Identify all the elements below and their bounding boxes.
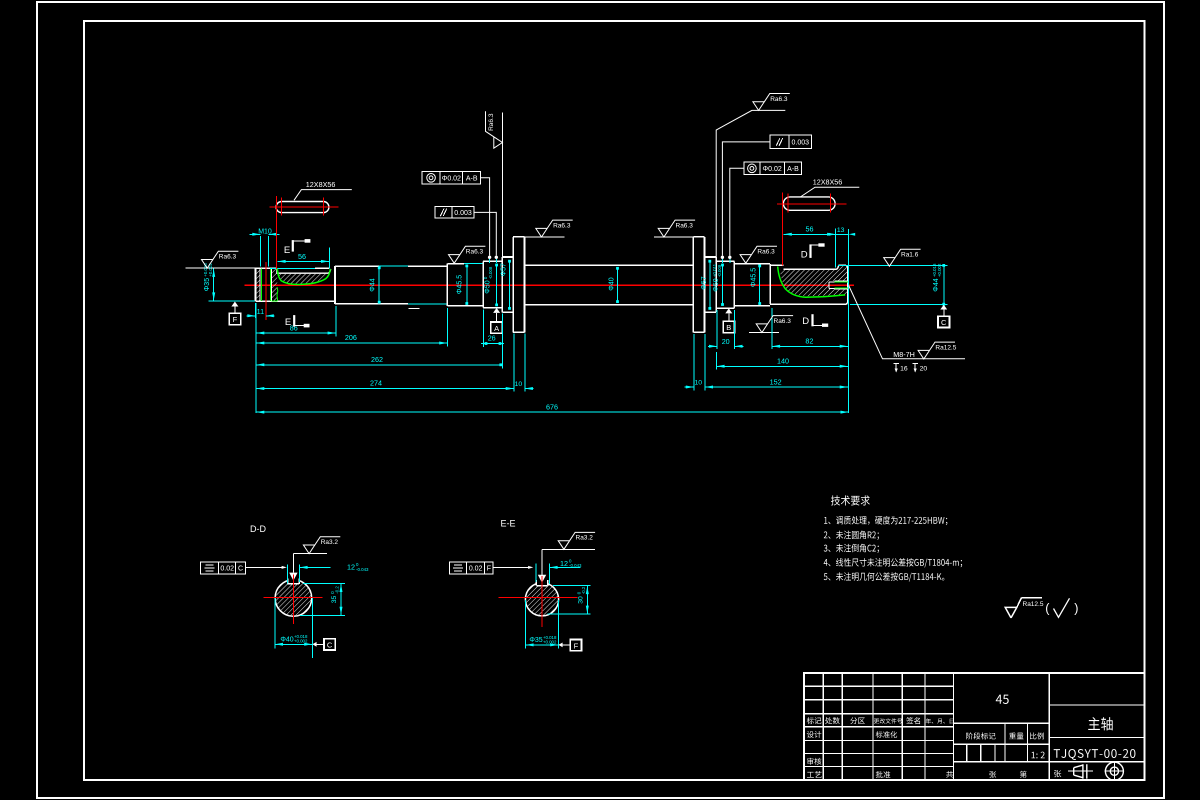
E-E leader arrow into keyway xyxy=(538,575,546,583)
title row craft xyxy=(807,771,822,778)
dim 152 and 10 flange2 xyxy=(693,334,695,391)
datum F main view xyxy=(231,302,238,307)
datum B main view xyxy=(725,308,732,313)
flange1 top edge + extension xyxy=(513,236,524,238)
M10 hole axis red xyxy=(265,262,267,320)
svg-text:Φ35: Φ35 xyxy=(204,278,211,291)
D-D keyway width dim 12 xyxy=(286,565,288,584)
svg-text:-0.008: -0.008 xyxy=(717,264,722,277)
title sheet count row xyxy=(946,771,953,778)
S10 right end top edge to keyway xyxy=(770,264,783,266)
D-D crosshair red xyxy=(263,597,322,599)
dim 56 right keyway xyxy=(834,229,836,268)
surface Ra6.3 on Phi45.5 xyxy=(449,246,486,263)
D-D circle with hatch xyxy=(275,580,312,617)
shaft left end face xyxy=(255,268,257,301)
svg-text:Φ45.5: Φ45.5 xyxy=(750,268,757,287)
svg-text:Φ40: Φ40 xyxy=(280,637,293,644)
svg-text:A-B: A-B xyxy=(787,166,799,173)
svg-text:-0.043: -0.043 xyxy=(356,567,369,572)
E-E symmetry GD&T frame 0.02 F xyxy=(450,562,467,574)
dim Phi45.5 xyxy=(466,266,468,304)
D-D GD&T leader xyxy=(245,566,284,568)
svg-text:E: E xyxy=(285,317,291,328)
dim 86 xyxy=(335,306,337,337)
svg-text:0.003: 0.003 xyxy=(791,140,809,147)
svg-text:82: 82 xyxy=(805,337,813,346)
E-E datum F flag xyxy=(558,643,562,648)
dim 82 xyxy=(771,308,773,349)
dim 262 xyxy=(255,303,257,413)
M8 tapped hole outline xyxy=(829,281,835,283)
S10 bottom edge xyxy=(770,303,846,305)
svg-text:+0.002: +0.002 xyxy=(543,639,557,644)
svg-text:E: E xyxy=(284,245,290,256)
svg-text:-0.2: -0.2 xyxy=(581,586,586,594)
title block right column lines xyxy=(1049,704,1144,706)
svg-text:-0.008: -0.008 xyxy=(488,266,493,279)
surface Ra1.6 right xyxy=(884,249,921,266)
svg-text:12X8X56: 12X8X56 xyxy=(306,180,336,189)
title block middle column lines xyxy=(954,722,1050,724)
svg-text:A: A xyxy=(494,324,499,333)
svg-text:56: 56 xyxy=(806,225,814,234)
left keyway slot top edge cyan overlay xyxy=(270,267,315,269)
dim 56 left keyway xyxy=(328,248,330,269)
S3 Phi45.5 top edge xyxy=(447,263,464,265)
title scale 1:2 xyxy=(1031,752,1044,759)
title row checker xyxy=(807,758,821,765)
S6 Phi40 top edge xyxy=(525,264,694,266)
svg-text:16: 16 xyxy=(900,365,908,372)
right keyway green break curve xyxy=(778,267,846,298)
svg-text:): ) xyxy=(1074,602,1078,616)
svg-text:B: B xyxy=(726,323,731,332)
svg-text:C: C xyxy=(238,566,243,573)
GD&T concentricity frame right xyxy=(744,162,760,174)
svg-text:140: 140 xyxy=(777,357,789,366)
svg-text:Ra1.6: Ra1.6 xyxy=(901,252,919,259)
surface Ra6.3 rotated on Phi57 step line xyxy=(486,111,503,148)
E-E crosshair red xyxy=(498,597,577,599)
svg-text:F: F xyxy=(487,566,491,573)
technical requirements title xyxy=(831,495,870,505)
surface Ra6.3 lower right xyxy=(756,316,793,333)
shaft S1 bottom edge to step xyxy=(256,300,336,302)
leader left concentricity xyxy=(481,178,490,256)
left keyway hatch xyxy=(278,270,331,285)
main shaft centerline xyxy=(244,284,854,286)
svg-text:Φ57: Φ57 xyxy=(701,276,708,289)
svg-text:Φ35: Φ35 xyxy=(529,637,542,644)
right keyway crosshair red xyxy=(777,203,846,205)
flange2 right face xyxy=(704,237,706,332)
svg-text:Ra6.3: Ra6.3 xyxy=(488,113,495,131)
S1 hatch left xyxy=(256,268,260,300)
M10 hole walls xyxy=(259,268,261,301)
M10 thread lines green xyxy=(261,268,263,301)
svg-text:12: 12 xyxy=(560,559,568,568)
step Phi50/Phi45.5 right xyxy=(733,261,735,308)
M8 thread lines green xyxy=(835,281,848,283)
svg-text:M8-7H: M8-7H xyxy=(893,350,915,359)
E-E keyway width dim 12 xyxy=(535,564,537,583)
leader right parallelism xyxy=(722,142,770,256)
title block left grid horizontals xyxy=(804,685,954,687)
left keyway slot bottom line xyxy=(277,269,331,273)
svg-text:20: 20 xyxy=(920,365,928,372)
svg-text:13: 13 xyxy=(837,227,845,234)
flange2 left face xyxy=(692,237,694,332)
svg-text:676: 676 xyxy=(546,402,558,411)
surface Ra6.3 on Phi45.5 right xyxy=(740,246,777,263)
svg-text:Φ40: Φ40 xyxy=(608,277,615,290)
dim Phi57 right xyxy=(709,261,711,308)
S9 Phi45.5 right top/bottom xyxy=(734,263,770,265)
dim 140 xyxy=(715,352,717,370)
S5 Phi57 bottom edge xyxy=(502,311,513,313)
surface Ra6.3 far left xyxy=(202,251,239,268)
GD&T parallelism frame left xyxy=(435,207,452,218)
S4 Phi50 bottom edge xyxy=(483,307,502,309)
dim Phi44 right end with datum C xyxy=(838,264,948,266)
dim Phi50 right xyxy=(722,265,724,305)
GD&T concentricity frame left xyxy=(422,172,440,184)
dim M10 xyxy=(259,236,261,267)
E-E diameter dim Phi35 xyxy=(524,600,526,649)
svg-text:274: 274 xyxy=(370,379,382,388)
surface Ra6.3 on flange2 xyxy=(658,220,695,237)
svg-text:A-B: A-B xyxy=(466,175,478,182)
dim 274 and 10 flange1 xyxy=(513,334,515,392)
dim 206 xyxy=(446,308,448,347)
title part name xyxy=(1088,717,1112,730)
tech req line 5 xyxy=(824,572,945,581)
S3 Phi45.5 bottom edge xyxy=(447,305,483,307)
M8-7H thread leader and note xyxy=(849,286,965,359)
right keyway hatch xyxy=(780,266,848,296)
D-D leader arrow into keyway xyxy=(289,573,297,581)
svg-text:30: 30 xyxy=(578,596,585,604)
S2 Phi44 top edge xyxy=(335,265,379,267)
dim Phi50 left xyxy=(496,265,498,305)
E-E circle with hatch xyxy=(525,583,558,616)
title material 45 xyxy=(996,695,1009,704)
S10 top edge after keyway xyxy=(839,264,847,266)
flange1 bottom edge xyxy=(513,331,524,333)
svg-text:Ra3.2: Ra3.2 xyxy=(321,539,339,546)
step Phi45.5/Phi50 xyxy=(482,261,484,307)
flange1 right face xyxy=(524,237,526,332)
left keyway crosshair red xyxy=(270,206,339,208)
dim 676 overall xyxy=(848,229,850,413)
title projection symbols xyxy=(1054,770,1061,777)
right keyway plan view 12X8X56 xyxy=(783,197,835,210)
dim Phi45.5 right xyxy=(759,266,761,304)
svg-text:20: 20 xyxy=(722,337,730,346)
dim 13 xyxy=(835,233,848,235)
S5 Phi57 top edge xyxy=(502,256,513,258)
svg-text:Ra6.3: Ra6.3 xyxy=(676,222,694,229)
flange1 left face xyxy=(512,237,514,332)
S6 Phi40 bottom edge xyxy=(525,304,694,306)
datum A main view xyxy=(496,308,498,309)
thread depth marks 16 / 20 xyxy=(894,363,900,365)
D-D Ra3.2 symbol xyxy=(293,553,327,555)
S4 Phi50 top edge xyxy=(483,260,502,262)
svg-text:152: 152 xyxy=(770,377,782,386)
svg-text:D: D xyxy=(801,250,808,261)
svg-text:0.003: 0.003 xyxy=(454,210,472,217)
right keyway leader and label xyxy=(800,187,859,197)
svg-text:E-E: E-E xyxy=(500,519,515,529)
svg-text:206: 206 xyxy=(345,333,357,342)
svg-text:C: C xyxy=(941,318,947,327)
break mark under shaft xyxy=(409,307,420,309)
E-E keyway notch xyxy=(535,580,537,585)
svg-text:C: C xyxy=(327,641,333,650)
svg-text:M10: M10 xyxy=(258,228,272,235)
svg-text:12X8X56: 12X8X56 xyxy=(813,178,843,187)
svg-text:11: 11 xyxy=(257,307,264,316)
svg-text:Φ50: Φ50 xyxy=(713,278,720,291)
svg-text:10: 10 xyxy=(515,381,523,388)
svg-text:+0.002: +0.002 xyxy=(937,263,942,277)
tech req line 1 xyxy=(824,516,947,525)
left keyway broken-out green break line lower xyxy=(276,287,279,300)
D-D keyway depth dim 35 xyxy=(303,582,345,584)
surface Ra12.5 note bottom right xyxy=(1005,607,1017,618)
svg-text:Φ0.02: Φ0.02 xyxy=(442,175,461,182)
svg-text:10: 10 xyxy=(695,380,703,387)
S7 Phi57 right top/bottom xyxy=(705,256,717,258)
step Phi50/Phi57 with extension up xyxy=(501,113,503,257)
svg-text:+0.002: +0.002 xyxy=(294,639,308,644)
svg-text:Φ45.5: Φ45.5 xyxy=(456,275,463,294)
title stage mark labels xyxy=(966,732,996,739)
svg-text:Φ44: Φ44 xyxy=(369,278,376,291)
step Phi45.5/Phi44 right xyxy=(769,264,771,304)
svg-text:12: 12 xyxy=(347,563,355,572)
svg-text:Ra6.3: Ra6.3 xyxy=(466,249,484,256)
svg-text:D-D: D-D xyxy=(250,524,266,534)
svg-text:Ra6.3: Ra6.3 xyxy=(553,222,571,229)
title row designer xyxy=(807,731,822,738)
title block outline xyxy=(804,673,1145,780)
tech req line 2 xyxy=(824,531,879,540)
svg-text:0.02: 0.02 xyxy=(469,566,483,573)
svg-text:Ra6.3: Ra6.3 xyxy=(219,254,237,261)
surface Ra6.3 on flange1 xyxy=(536,220,573,237)
dim 26 xyxy=(483,310,485,348)
svg-text:+0.002: +0.002 xyxy=(208,263,213,277)
right keyway slot bottom line xyxy=(783,268,836,270)
E-E Ra3.2 symbol xyxy=(542,548,595,550)
svg-text:Φ44: Φ44 xyxy=(933,278,940,291)
left keyway plan view 12X8X56 xyxy=(276,202,329,213)
svg-text:Φ50: Φ50 xyxy=(484,280,491,293)
flange2 bottom edge + extension right xyxy=(693,331,704,333)
dim Phi57 left xyxy=(509,261,511,308)
svg-text:Ra12.5: Ra12.5 xyxy=(935,344,956,351)
left keyway green break curve xyxy=(277,269,330,285)
svg-text:Ra12.5: Ra12.5 xyxy=(1023,601,1044,608)
E-E GD&T leader xyxy=(493,566,531,568)
dim Phi44 left xyxy=(378,268,380,302)
flange2 top edge + extension to left xyxy=(693,236,704,238)
GD&T parallelism frame right xyxy=(770,135,789,148)
D-D datum C flag xyxy=(312,642,316,647)
S2 Phi44 bottom edge xyxy=(335,303,408,305)
step Phi44/Phi45.5 xyxy=(446,263,448,306)
surface Ra6.3 top right with leader xyxy=(716,110,785,259)
svg-text:Ra6.3: Ra6.3 xyxy=(774,318,792,325)
svg-text:Φ0.02: Φ0.02 xyxy=(763,166,782,173)
svg-text:35: 35 xyxy=(331,596,338,604)
dim 11 xyxy=(255,303,257,318)
left keyway leader and label xyxy=(294,190,352,201)
step Phi35/Phi44 xyxy=(334,266,336,304)
dim 20 right xyxy=(716,310,718,349)
svg-text:F: F xyxy=(233,315,238,324)
svg-text:56: 56 xyxy=(298,252,306,261)
svg-text:F: F xyxy=(574,641,579,650)
leader right concentricity xyxy=(730,168,744,255)
step Phi57/Phi50 right xyxy=(715,257,717,312)
S1 hatch right xyxy=(272,268,277,300)
D-D diameter dim Phi40 xyxy=(274,598,276,649)
title header row labels xyxy=(807,717,822,724)
tech req line 3 xyxy=(824,544,879,553)
svg-text:Φ57: Φ57 xyxy=(501,263,508,276)
D-D symmetry GD&T frame 0.02 C xyxy=(201,562,219,574)
svg-text:Ra6.3: Ra6.3 xyxy=(770,96,788,103)
svg-text:26: 26 xyxy=(488,333,496,342)
dim Phi35 left end xyxy=(185,267,255,269)
S8 Phi50 right top/bottom xyxy=(716,260,734,262)
svg-text:-0.2: -0.2 xyxy=(335,586,340,594)
svg-text:D: D xyxy=(802,316,809,327)
right end chamfers and end face xyxy=(846,265,848,267)
title block left grid verticals xyxy=(822,673,824,780)
shaft S1 top edge xyxy=(256,267,278,269)
svg-text:262: 262 xyxy=(371,355,383,364)
svg-text:-0.043: -0.043 xyxy=(569,563,582,568)
E-E keyway depth dim 30 xyxy=(553,585,591,587)
D-D keyway notch xyxy=(287,579,289,584)
svg-text:Ra6.3: Ra6.3 xyxy=(757,249,775,256)
svg-text:Ra3.2: Ra3.2 xyxy=(576,535,594,542)
tech req line 4 xyxy=(824,558,962,567)
leader left parallelism xyxy=(474,212,496,255)
svg-text:0.02: 0.02 xyxy=(220,566,234,573)
title drawing number xyxy=(1054,749,1136,760)
dim Phi40 middle xyxy=(617,268,619,301)
